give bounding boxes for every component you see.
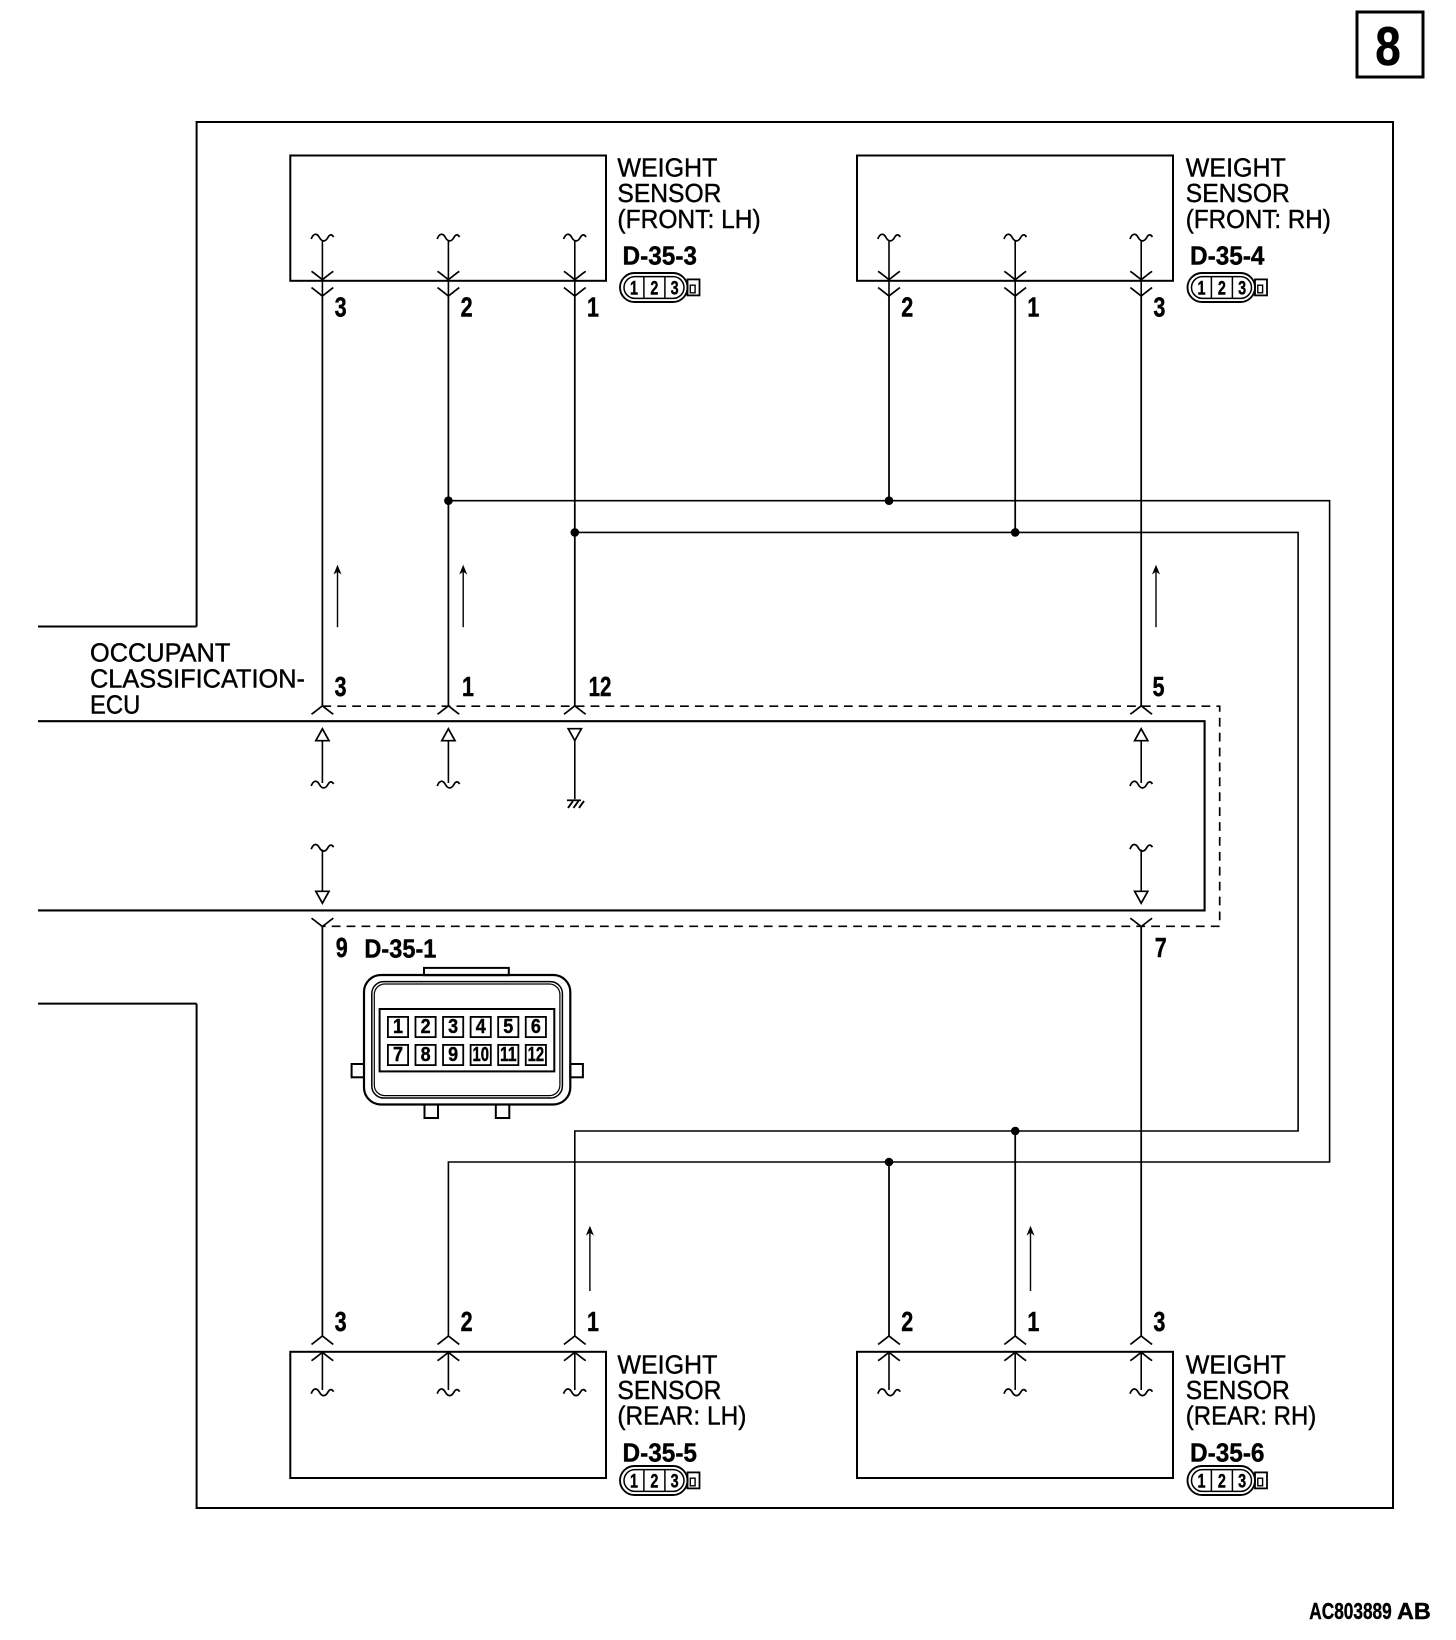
svg-text:12: 12 [528,1044,545,1066]
svg-text:10: 10 [472,1044,489,1066]
svg-text:AB: AB [1397,1598,1431,1624]
svg-text:2: 2 [1218,1472,1226,1493]
svg-text:3: 3 [1238,279,1246,300]
svg-text:CLASSIFICATION-: CLASSIFICATION- [90,666,305,694]
svg-text:3: 3 [1238,1472,1246,1493]
svg-text:D-35-3: D-35-3 [623,241,698,271]
svg-text:8: 8 [1375,15,1401,77]
svg-text:4: 4 [476,1016,487,1038]
svg-text:3: 3 [671,1472,679,1493]
svg-text:2: 2 [901,1306,913,1337]
svg-text:7: 7 [1155,932,1167,963]
svg-text:OCCUPANT: OCCUPANT [90,640,230,668]
svg-text:2: 2 [1218,279,1226,300]
svg-text:1: 1 [1027,1306,1039,1337]
svg-text:(REAR: RH): (REAR: RH) [1186,1403,1317,1431]
svg-text:3: 3 [448,1016,458,1038]
svg-text:3: 3 [335,671,347,702]
svg-text:1: 1 [587,292,599,323]
svg-text:WEIGHT: WEIGHT [1186,1352,1286,1380]
svg-text:12: 12 [589,671,612,702]
svg-text:(FRONT: RH): (FRONT: RH) [1186,206,1331,234]
svg-text:WEIGHT: WEIGHT [617,1352,717,1380]
svg-text:WEIGHT: WEIGHT [1186,155,1286,183]
svg-text:SENSOR: SENSOR [617,1377,721,1405]
svg-text:SENSOR: SENSOR [1186,180,1290,208]
svg-text:1: 1 [1198,279,1206,300]
svg-text:2: 2 [461,292,473,323]
svg-text:SENSOR: SENSOR [617,180,721,208]
svg-text:8: 8 [421,1044,431,1066]
svg-text:2: 2 [421,1016,431,1038]
svg-text:2: 2 [461,1306,473,1337]
svg-text:SENSOR: SENSOR [1186,1377,1290,1405]
svg-text:9: 9 [336,932,348,963]
svg-text:D-35-4: D-35-4 [1190,241,1265,271]
svg-text:1: 1 [630,1472,638,1493]
svg-text:3: 3 [1153,1306,1165,1337]
svg-text:1: 1 [462,671,474,702]
svg-text:2: 2 [650,279,658,300]
svg-text:3: 3 [335,292,347,323]
svg-text:AC803889: AC803889 [1309,1598,1391,1624]
svg-text:7: 7 [393,1044,403,1066]
svg-text:D-35-1: D-35-1 [364,934,436,964]
svg-text:3: 3 [1153,292,1165,323]
svg-text:1: 1 [393,1016,403,1038]
svg-text:2: 2 [650,1472,658,1493]
svg-text:2: 2 [901,292,913,323]
svg-text:5: 5 [1153,671,1165,702]
svg-text:D-35-5: D-35-5 [623,1437,698,1467]
svg-text:5: 5 [503,1016,513,1038]
svg-text:1: 1 [587,1306,599,1337]
svg-text:D-35-6: D-35-6 [1190,1437,1265,1467]
svg-text:3: 3 [671,279,679,300]
svg-text:11: 11 [500,1044,517,1066]
svg-text:ECU: ECU [90,692,140,720]
svg-text:6: 6 [531,1016,541,1038]
svg-text:3: 3 [335,1306,347,1337]
svg-text:WEIGHT: WEIGHT [617,155,717,183]
svg-text:1: 1 [1027,292,1039,323]
svg-text:(REAR: LH): (REAR: LH) [617,1403,746,1431]
svg-text:(FRONT: LH): (FRONT: LH) [617,206,760,234]
svg-text:1: 1 [630,279,638,300]
svg-text:1: 1 [1198,1472,1206,1493]
svg-text:9: 9 [448,1044,458,1066]
